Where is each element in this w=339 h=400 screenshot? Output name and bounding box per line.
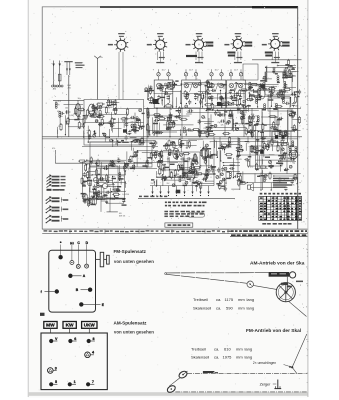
Fi4 tuning capacitor (230, 95, 232, 97)
bracket (60, 197, 62, 202)
value label (182, 173, 187, 174)
resistor (94, 188, 96, 190)
svg-text:von unten gesehen: von unten gesehen (114, 259, 154, 264)
trimmer (131, 124, 134, 127)
value label (283, 74, 286, 75)
coil (176, 154, 178, 156)
value label (132, 129, 135, 130)
value label (239, 149, 243, 150)
capacitor (165, 176, 167, 178)
switch contact (208, 186, 210, 192)
wire (189, 179, 191, 182)
wire loop (243, 64, 258, 80)
measurement note line (165, 205, 167, 207)
wire (286, 142, 288, 174)
push button KW (63, 322, 76, 329)
value label (260, 132, 263, 133)
leader wire (86, 245, 88, 265)
wire (290, 97, 292, 107)
svg-text:AM-Spulensatz: AM-Spulensatz (114, 321, 148, 326)
capacitor (161, 84, 163, 86)
value label (224, 111, 227, 112)
resistor (184, 90, 186, 92)
value label (170, 88, 173, 89)
wire (130, 137, 137, 139)
value label (268, 165, 273, 166)
junction (126, 167, 127, 168)
junction (180, 103, 181, 104)
resistor (267, 143, 269, 145)
capacitor (284, 67, 286, 69)
junction (207, 173, 208, 174)
wire (233, 158, 235, 178)
trimmer (202, 116, 205, 119)
pin number label (156, 62, 164, 63)
wire (107, 197, 114, 199)
value label (158, 161, 162, 162)
resistor (240, 89, 242, 91)
junction (156, 108, 157, 109)
value label (142, 165, 147, 166)
antenna arrow (59, 64, 61, 67)
svg-text:560: 560 (217, 93, 220, 95)
cord between pulleys (169, 378, 180, 387)
wire (298, 107, 301, 109)
capacitor (135, 152, 137, 154)
value label (132, 156, 135, 157)
svg-text:6,8k: 6,8k (168, 94, 172, 96)
value label (289, 73, 292, 74)
value label (165, 145, 170, 146)
tube V5 EL84 envelope (202, 147, 209, 158)
junction (249, 92, 250, 93)
value label (273, 109, 277, 110)
resistor (238, 150, 240, 152)
svg-text:70p: 70p (204, 161, 207, 163)
value label (256, 139, 259, 140)
wire (187, 161, 189, 178)
top right bus wire (252, 59, 298, 61)
voltage table header (260, 193, 263, 195)
trimmer (93, 134, 96, 137)
resistor (220, 144, 222, 146)
svg-text:0,1: 0,1 (215, 170, 218, 172)
value label (212, 173, 215, 174)
AM terminal 5 (49, 382, 53, 386)
capacitor (222, 167, 224, 169)
dial cord lower (166, 274, 247, 283)
coil (119, 173, 121, 175)
value label (228, 115, 233, 116)
capacitor (285, 72, 287, 74)
junction (94, 131, 95, 132)
resistor (200, 131, 202, 133)
resistor (239, 175, 241, 177)
capacitor (189, 100, 191, 102)
coil (256, 148, 258, 150)
resistor (153, 114, 155, 116)
resistor (283, 91, 285, 93)
value label (93, 193, 98, 194)
junction (206, 177, 207, 178)
svg-text:FM-Antrieb von der Skal: FM-Antrieb von der Skal (246, 328, 301, 334)
capacitor (187, 129, 189, 131)
switch contact (192, 186, 194, 192)
svg-text:6,8k: 6,8k (255, 85, 259, 87)
wire (132, 126, 143, 128)
wire (162, 91, 181, 93)
value label (223, 105, 227, 106)
resistor (96, 169, 98, 171)
svg-text:2n: 2n (183, 154, 185, 156)
trimmer (240, 117, 243, 120)
wire (197, 157, 199, 164)
trimmer (99, 123, 102, 126)
trimmer capacitor on Fi4 (229, 73, 232, 76)
wire (100, 194, 102, 201)
wire (248, 132, 253, 134)
wire (155, 180, 157, 186)
svg-text:0,5M: 0,5M (122, 121, 127, 123)
svg-text:1M: 1M (282, 140, 285, 142)
junction (220, 90, 221, 91)
dipole impedance label (75, 62, 83, 63)
value label (83, 181, 87, 182)
wire (245, 143, 247, 151)
value label (97, 198, 102, 199)
junction (149, 134, 150, 135)
value label (137, 119, 141, 120)
capacitor (171, 141, 173, 143)
trimmer capacitor on Fi2 (184, 73, 187, 76)
wire (123, 199, 125, 202)
junction (186, 134, 187, 135)
value label (189, 173, 193, 174)
svg-text:5: 5 (55, 380, 57, 384)
wire (108, 164, 110, 182)
resistor (173, 120, 175, 122)
wire (266, 66, 268, 82)
wire (243, 108, 245, 137)
resistor (194, 153, 196, 155)
trimmer (249, 122, 252, 125)
tube V2 center (160, 44, 161, 45)
trimmer (221, 173, 224, 176)
value label (168, 152, 171, 153)
wire (200, 149, 209, 151)
value label (130, 168, 135, 169)
svg-text:470: 470 (161, 169, 164, 171)
junction (87, 177, 88, 178)
wire (290, 148, 292, 159)
resistor (253, 96, 255, 98)
capacitor (259, 84, 261, 86)
capacitor (85, 114, 87, 116)
resistor (254, 124, 256, 126)
value label (121, 140, 124, 141)
resistor (121, 118, 123, 120)
junction (181, 108, 182, 109)
wire (262, 78, 272, 80)
wire (172, 101, 174, 107)
capacitor (103, 195, 105, 197)
svg-text:KW: KW (66, 323, 74, 329)
wire (283, 74, 285, 82)
wire (223, 85, 225, 89)
svg-text:AM-Antrieb von der Ska: AM-Antrieb von der Ska (250, 261, 305, 267)
wire (95, 162, 97, 199)
resistor (269, 172, 271, 174)
Fi3 core arrow (215, 84, 218, 93)
junction (103, 123, 104, 124)
capacitor (198, 119, 200, 121)
resistor (293, 124, 295, 126)
wire (180, 129, 182, 135)
value label (277, 92, 281, 93)
trimmer (92, 106, 95, 109)
wire (96, 168, 157, 170)
wire (217, 94, 219, 101)
terminal (s) (70, 261, 74, 265)
wire (277, 108, 279, 137)
resistor (115, 107, 117, 109)
junction (253, 89, 254, 90)
value label (170, 164, 175, 165)
svg-text:10k: 10k (170, 172, 173, 174)
table caption (262, 223, 266, 225)
value label (95, 107, 98, 108)
junction (182, 169, 183, 170)
trimmer capacitor on Fi3 (210, 73, 213, 76)
junction (213, 167, 214, 168)
wire (223, 162, 240, 164)
output transformer Tr1 (272, 132, 288, 143)
svg-text:0,1: 0,1 (224, 170, 227, 172)
resistor (250, 94, 252, 96)
resistor (151, 96, 153, 98)
trimmer (112, 164, 115, 167)
wire (199, 108, 201, 137)
Fi2 terminal (186, 103, 187, 104)
wire (91, 197, 93, 204)
contact label (52, 216, 60, 218)
resistor (166, 87, 168, 89)
svg-text:100: 100 (287, 134, 290, 136)
wire (162, 84, 182, 86)
capacitor (175, 116, 177, 118)
value label (156, 132, 159, 133)
junction (200, 165, 201, 166)
value label (218, 148, 223, 149)
junction (174, 175, 175, 176)
coil (255, 97, 257, 99)
Fi3 tuning capacitor (211, 95, 213, 97)
trimmer (206, 144, 209, 147)
AM coil set outline (41, 333, 107, 390)
junction (110, 198, 111, 199)
junction (208, 167, 209, 168)
svg-text:6,8k: 6,8k (267, 142, 271, 144)
junction (57, 136, 58, 137)
junction (96, 195, 97, 196)
wire (124, 171, 126, 175)
value label (265, 146, 268, 147)
trimmer capacitor on Fi4 (239, 73, 242, 76)
wire (260, 89, 262, 98)
wire (270, 86, 272, 106)
wire (210, 114, 212, 127)
junction (183, 175, 184, 176)
FM tuner box (84, 100, 144, 146)
svg-text:von unten gesehen: von unten gesehen (114, 330, 154, 335)
wire to FM tuner (53, 99, 84, 101)
resistor (251, 130, 253, 132)
capacitor (200, 99, 202, 101)
resistor (277, 144, 279, 146)
wire (292, 118, 300, 120)
wire (251, 108, 253, 137)
junction (105, 135, 106, 136)
wire (184, 82, 208, 84)
svg-text:12k: 12k (285, 92, 288, 94)
junction (243, 108, 244, 109)
Fi4 screen wire (227, 93, 246, 95)
value label (140, 126, 145, 127)
wire (169, 94, 171, 103)
value label (207, 86, 212, 87)
capacitor (195, 181, 197, 183)
value label (256, 169, 259, 170)
wire (157, 177, 198, 179)
svg-text:8: 8 (93, 337, 95, 341)
value label (198, 131, 202, 132)
trimmer (264, 175, 267, 178)
svg-text:30p: 30p (217, 112, 220, 114)
wire (258, 131, 294, 133)
junction (147, 136, 148, 137)
Fi1 terminal (158, 103, 159, 104)
capacitor (180, 158, 182, 160)
value label (102, 198, 106, 199)
wire (298, 154, 300, 156)
value label (168, 82, 172, 83)
note bracket (297, 178, 299, 184)
junction (165, 88, 166, 89)
capacitor (211, 89, 213, 91)
capacitor (89, 182, 91, 184)
value label (227, 157, 231, 158)
svg-text:12k: 12k (203, 96, 206, 98)
value label (230, 165, 235, 166)
page mark (40, 313, 45, 316)
wire (88, 168, 90, 181)
junction (197, 96, 198, 97)
svg-text:5n: 5n (108, 113, 110, 115)
group label (47, 189, 52, 191)
trimmer (110, 124, 113, 127)
resistor (242, 117, 244, 119)
junction (193, 183, 194, 184)
junction (169, 176, 170, 177)
value label (117, 190, 120, 191)
junction (294, 91, 295, 92)
pin number label (271, 62, 279, 63)
value label (160, 155, 164, 156)
wire (148, 112, 150, 126)
svg-text:470: 470 (111, 125, 114, 127)
junction (235, 125, 236, 126)
resistor (88, 111, 90, 113)
capacitor (290, 110, 292, 112)
resistor (192, 157, 194, 159)
wire (87, 159, 126, 161)
wire (57, 127, 59, 134)
value label (94, 192, 97, 193)
wire (100, 186, 102, 194)
terminal A (68, 274, 72, 278)
svg-text:70p: 70p (159, 83, 162, 85)
tube socket V1 EC92 (bottom view) (117, 40, 126, 49)
junction (97, 182, 98, 183)
value label (290, 65, 293, 66)
tube V5 pin label (262, 44, 267, 46)
wire (284, 178, 295, 180)
tube V3 pin label (186, 44, 191, 46)
junction (271, 106, 272, 107)
junction (125, 118, 126, 119)
trimmer (203, 157, 206, 160)
pin number label (234, 62, 242, 63)
coil (238, 138, 240, 140)
wire (84, 122, 144, 124)
wire (264, 88, 271, 90)
Fi2 secondary coil (193, 83, 198, 88)
cable wire (138, 197, 235, 199)
value label (268, 99, 274, 100)
Fi4 primary coil (229, 83, 234, 88)
svg-text:10k: 10k (65, 108, 68, 110)
wire (198, 132, 200, 137)
coil (97, 182, 99, 184)
wire (186, 141, 188, 148)
wire (93, 114, 126, 116)
wire loop (90, 166, 118, 192)
wire (170, 169, 189, 171)
Fi3 primary coil (210, 83, 215, 88)
Fi2 screen wire (182, 93, 201, 95)
IF strip bus wire (144, 107, 298, 109)
svg-text:50p: 50p (203, 118, 206, 120)
tube V2 label (157, 33, 164, 34)
coil (183, 127, 185, 129)
FM dipole bar (64, 61, 72, 63)
trimmer (236, 128, 239, 131)
wire (117, 141, 119, 146)
value label (220, 98, 224, 99)
capacitor (112, 189, 114, 191)
coil (180, 142, 182, 144)
wire (104, 197, 124, 199)
junction (126, 133, 127, 134)
umschlingen arrow (284, 365, 291, 367)
capacitor (103, 167, 105, 169)
wire (135, 127, 137, 133)
junction (94, 196, 95, 197)
wire (154, 131, 177, 133)
resistor (271, 138, 273, 140)
junction (207, 129, 208, 130)
capacitor (221, 114, 223, 116)
